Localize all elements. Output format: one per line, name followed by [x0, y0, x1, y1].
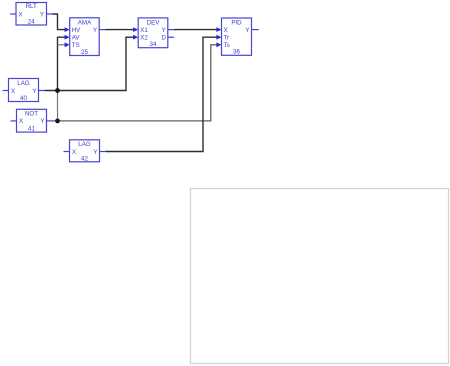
svg-text:X: X [72, 149, 76, 156]
wire node branch to AMA.AV [58, 37, 66, 90]
wire RLT.Y to AMA.HV [53, 14, 66, 30]
arrow into PID.Ts [216, 42, 221, 47]
arrow into PID.Tr [216, 35, 221, 40]
svg-text:AV: AV [72, 35, 81, 42]
AMA output stub Y [99, 29, 105, 31]
arrow into DEV.X1 [133, 27, 138, 32]
RLT body [16, 3, 47, 26]
svg-text:X: X [224, 27, 228, 34]
function block LAG 42 [64, 140, 107, 163]
arrow into AMA.TS [65, 42, 70, 47]
svg-text:Y: Y [40, 118, 44, 125]
junction dot at LAG40.Y node [55, 88, 60, 93]
svg-text:X2: X2 [140, 35, 148, 42]
LAG40 body [9, 79, 39, 102]
arrow into DEV.X2 [133, 35, 138, 40]
function block RLT 24 [10, 3, 53, 26]
svg-text:Ts: Ts [224, 42, 230, 49]
function block DEV 34 [133, 18, 174, 48]
wire LAG42.Y to PID.Tr [106, 37, 218, 151]
DEV output stub Y [168, 29, 174, 31]
AMA body [70, 18, 100, 56]
svg-text:X1: X1 [140, 27, 148, 34]
svg-text:TS: TS [72, 42, 80, 49]
LAG42 body [70, 140, 100, 162]
svg-text:D: D [161, 35, 166, 42]
NOT41 input stub X [11, 120, 17, 122]
junction dot at NOT41.Y node [55, 119, 60, 124]
svg-text:RLT: RLT [26, 3, 37, 10]
svg-text:HV: HV [72, 27, 81, 34]
RLT output stub Y [47, 13, 54, 15]
svg-text:34: 34 [150, 41, 157, 48]
svg-text:Y: Y [93, 149, 97, 156]
arrow into PID.X [216, 27, 221, 32]
PID body [222, 18, 252, 55]
svg-text:LAG: LAG [78, 141, 91, 148]
function block AMA 25 [65, 18, 106, 56]
svg-text:PID: PID [231, 20, 242, 27]
svg-text:Y: Y [32, 88, 36, 95]
LAG40 output stub Y [39, 90, 46, 92]
NOT41 body [17, 109, 47, 132]
svg-text:42: 42 [81, 155, 88, 162]
svg-text:41: 41 [28, 125, 35, 132]
arrow into AMA.AV [65, 35, 70, 40]
LAG42 output stub Y [100, 151, 107, 153]
function block PID 36 [216, 18, 258, 56]
svg-text:DEV: DEV [147, 20, 161, 27]
svg-text:AMA: AMA [78, 19, 92, 26]
wire branch to AMA.TS [58, 44, 66, 46]
svg-text:40: 40 [20, 95, 27, 102]
arrow into AMA.HV [65, 27, 70, 32]
svg-text:X: X [19, 118, 23, 125]
wire between junction dots [57, 91, 59, 121]
svg-text:NOT: NOT [25, 111, 38, 118]
DEV body [138, 18, 168, 48]
LAG42 input stub X [64, 151, 70, 153]
wire AMA.Y to DEV.X1 [105, 29, 134, 31]
PID output stub Y [252, 29, 259, 31]
svg-text:Tr: Tr [224, 35, 230, 42]
function block LAG 40 [3, 79, 46, 102]
wire LAG40.Y to DEV.X2 [45, 37, 135, 90]
svg-text:Y: Y [245, 27, 249, 34]
svg-text:25: 25 [81, 49, 88, 56]
wire DEV.Y to PID.X [174, 29, 217, 31]
LAG40 input stub X [3, 90, 9, 92]
svg-text:X: X [19, 11, 23, 18]
svg-text:X: X [11, 88, 15, 95]
RLT input stub X [10, 13, 16, 15]
wire NOT41.Y to PID.Ts [53, 45, 218, 121]
svg-text:LAG: LAG [17, 80, 30, 87]
svg-text:Y: Y [162, 27, 166, 34]
empty panel rectangle bottom-right [191, 189, 449, 364]
svg-text:24: 24 [28, 18, 35, 25]
DEV output stub D [168, 36, 174, 38]
svg-text:Y: Y [93, 27, 97, 34]
NOT41 output stub Y [47, 120, 54, 122]
svg-text:36: 36 [233, 49, 240, 56]
svg-text:Y: Y [40, 11, 44, 18]
function block NOT 41 [11, 109, 54, 132]
